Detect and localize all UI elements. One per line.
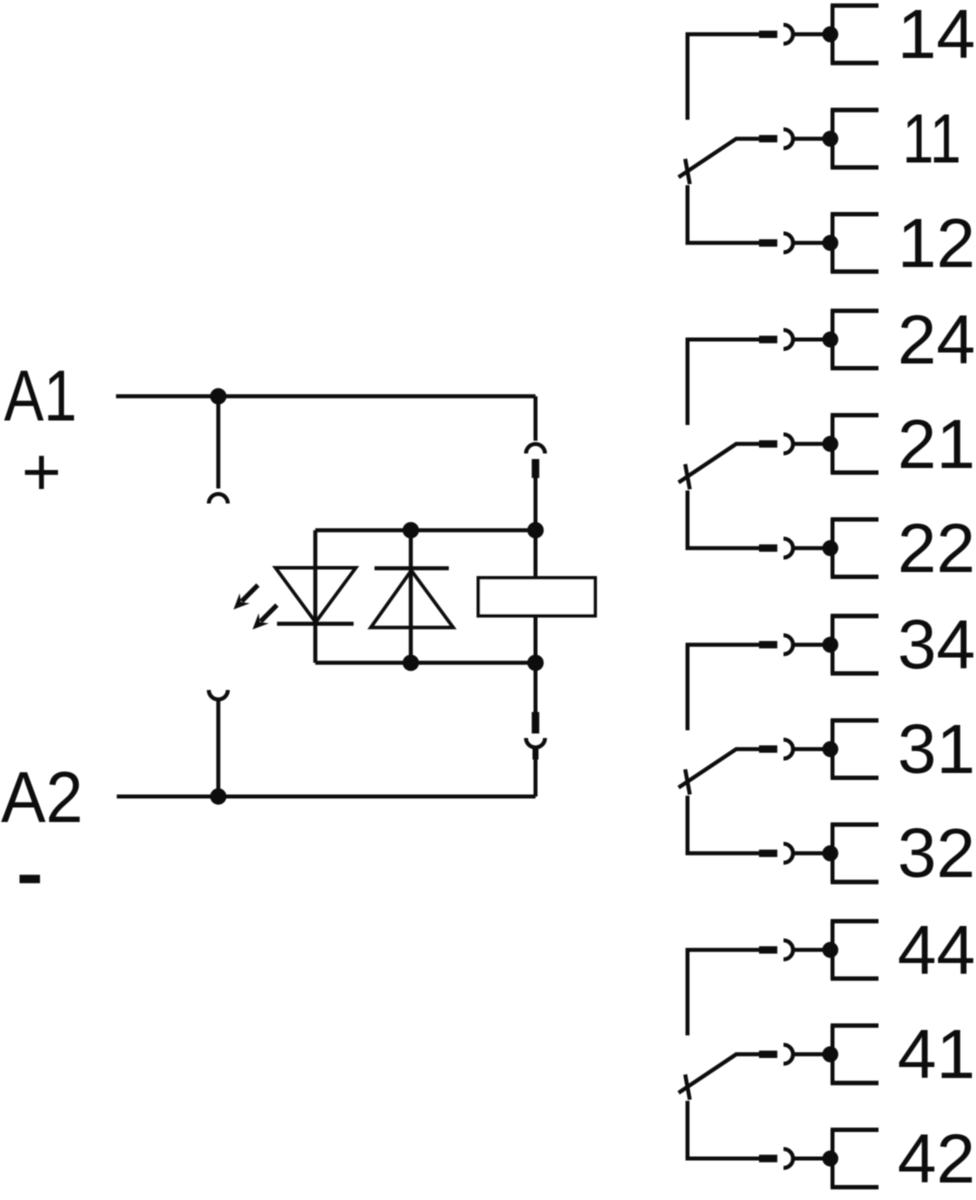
svg-text:32: 32 — [898, 814, 976, 892]
svg-text:A2: A2 — [1, 758, 83, 838]
svg-text:A1: A1 — [4, 357, 77, 437]
svg-text:+: + — [22, 434, 62, 510]
svg-text:34: 34 — [898, 606, 976, 684]
svg-text:44: 44 — [898, 911, 976, 989]
svg-text:11: 11 — [902, 100, 961, 178]
svg-text:41: 41 — [898, 1015, 976, 1093]
svg-text:21: 21 — [898, 405, 976, 483]
svg-text:31: 31 — [898, 710, 976, 788]
svg-text:42: 42 — [898, 1119, 976, 1197]
svg-text:14: 14 — [898, 0, 976, 73]
svg-text:12: 12 — [898, 204, 976, 282]
svg-text:22: 22 — [898, 509, 976, 587]
svg-text:24: 24 — [898, 300, 976, 378]
